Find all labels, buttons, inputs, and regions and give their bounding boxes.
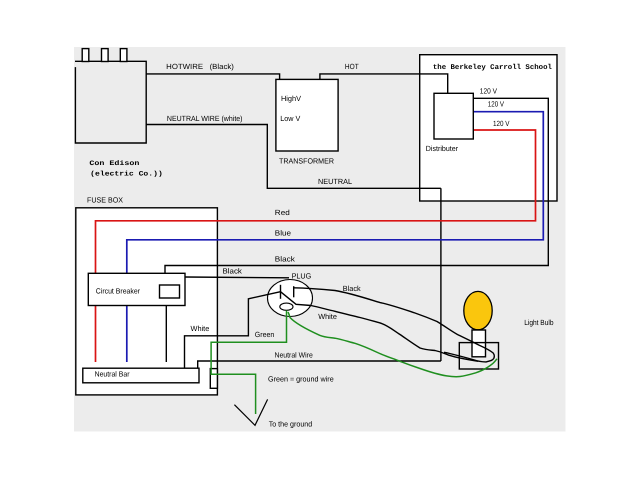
svg-text:Green: Green <box>255 330 274 339</box>
svg-text:(electric Co.)): (electric Co.)) <box>90 171 163 179</box>
wire white from plug to neutral bar <box>185 292 281 369</box>
bulb glass <box>464 291 492 329</box>
wire green ground cord from plug to bulb socket <box>288 312 497 377</box>
svg-text:Light Bulb: Light Bulb <box>524 318 553 327</box>
fuse box <box>76 208 218 395</box>
neutral bar <box>83 368 199 383</box>
wire white cord from plug to bulb socket <box>281 292 479 362</box>
svg-text:Neutral Bar: Neutral Bar <box>95 369 130 378</box>
svg-text:Con Edison: Con Edison <box>89 160 139 168</box>
bulb socket outer box <box>459 343 498 369</box>
svg-text:Neutral Wire: Neutral Wire <box>275 350 313 359</box>
distributer box <box>434 93 473 139</box>
svg-text:Red: Red <box>275 208 290 217</box>
plug right slot <box>293 286 295 297</box>
svg-text:the Berkeley Carroll School: the Berkeley Carroll School <box>433 63 553 72</box>
svg-text:NEUTRAL: NEUTRAL <box>318 177 352 186</box>
svg-text:Black: Black <box>343 284 361 293</box>
wire neutral vertical through school box <box>440 188 442 361</box>
svg-text:HOT: HOT <box>345 62 359 71</box>
svg-text:FUSE BOX: FUSE BOX <box>87 195 123 204</box>
school building box <box>420 55 557 201</box>
breaker switch rectangle <box>160 285 180 298</box>
plug left slot <box>280 285 282 299</box>
svg-text:White: White <box>318 312 337 321</box>
wire neutral from Con Edison down and right <box>146 125 441 189</box>
svg-text:Blue: Blue <box>275 229 291 238</box>
wire green ground from plug to earth <box>211 310 286 414</box>
svg-text:Low V: Low V <box>280 114 300 123</box>
svg-text:HOTWIRE (Black): HOTWIRE (Black) <box>166 62 234 71</box>
svg-text:HighV: HighV <box>281 94 301 103</box>
svg-text:120 V: 120 V <box>488 99 504 108</box>
wire black cord from plug to bulb socket <box>294 288 495 362</box>
svg-text:Distributer: Distributer <box>426 144 459 153</box>
bulb base stem <box>472 330 486 357</box>
svg-text:To the ground: To the ground <box>269 419 313 428</box>
svg-text:Black: Black <box>223 266 243 275</box>
plug receptacle circle <box>268 280 313 317</box>
prong 2 on Con Edison box <box>102 49 109 62</box>
svg-text:120 V: 120 V <box>480 86 497 95</box>
plug ground hole <box>280 303 293 310</box>
svg-text:Green = ground wire: Green = ground wire <box>268 374 334 383</box>
circuit breaker box <box>88 273 185 305</box>
svg-text:Black: Black <box>275 255 295 264</box>
svg-text:NEUTRAL WIRE (white): NEUTRAL WIRE (white) <box>167 114 243 123</box>
prong 1 on Con Edison box <box>82 49 89 62</box>
transformer T1 <box>276 79 338 151</box>
wire black from circuit breaker to plug <box>185 276 289 279</box>
svg-text:TRANSFORMER: TRANSFORMER <box>279 157 335 166</box>
wire white from circuit breaker down <box>165 306 167 363</box>
svg-text:120 V: 120 V <box>493 119 510 128</box>
wire black 120V from distributer to circuit breaker <box>165 98 548 273</box>
svg-text:PLUG: PLUG <box>292 271 312 280</box>
utility pole box (Con Edison source) <box>75 61 146 143</box>
wire neutral run to fuse box neutral bar <box>198 361 441 368</box>
wire blue 120V from distributer to fuse box <box>127 112 544 362</box>
svg-text:Circut Breaker: Circut Breaker <box>96 286 141 295</box>
ground arrow to earth <box>234 399 267 425</box>
prong 3 on Con Edison box <box>120 49 127 62</box>
wire red 120V from distributer to fuse box <box>96 130 536 362</box>
wire hot from Con Edison to transformer <box>146 74 279 80</box>
conduit block on fuse box edge <box>210 369 217 389</box>
svg-text:White: White <box>191 324 210 333</box>
wire hot from transformer to school distributer <box>320 74 448 93</box>
